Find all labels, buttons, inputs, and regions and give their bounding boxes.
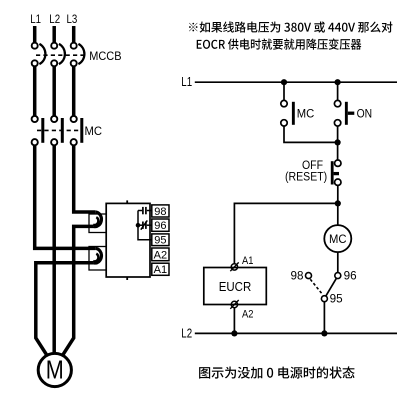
wire L3 incoming drop	[72, 26, 76, 43]
EOCR CT window notch 1	[89, 214, 106, 233]
svg-text:L2: L2	[49, 12, 60, 26]
EOCR output contact 98 terminal	[306, 273, 312, 279]
svg-text:ON: ON	[357, 107, 373, 121]
svg-text:L3: L3	[67, 12, 78, 26]
svg-text:98: 98	[154, 206, 166, 218]
EOCR box bottom tick	[126, 277, 128, 280]
EOCR relay body box	[106, 203, 150, 277]
note text line 1	[189, 21, 392, 32]
node junction dot below ON	[335, 139, 341, 145]
EOCR terminal box A2	[152, 248, 169, 261]
wire L1 CT loop hook	[94, 248, 102, 263]
svg-text:95: 95	[330, 292, 343, 306]
MC auxiliary contact	[281, 100, 287, 106]
wire A2 to L2 rail	[233, 308, 235, 334]
wire MC aux to OFF junction	[284, 126, 338, 142]
svg-text:M: M	[46, 354, 64, 384]
MC pole 3 contact bar	[80, 118, 83, 143]
svg-text:A2: A2	[154, 249, 167, 261]
svg-text:MC: MC	[85, 124, 103, 138]
wire L3 CT loop hook	[94, 212, 102, 227]
EOCR internal NC contact to 96	[138, 224, 142, 226]
wire L2 incoming drop	[52, 26, 56, 43]
wire L2 rail	[195, 332, 397, 334]
wire L1 CT loop return	[36, 263, 94, 356]
caption text bottom	[199, 366, 355, 378]
wire L3 CT loop return	[62, 226, 94, 356]
EOCR output contact 96 terminal	[335, 273, 341, 279]
MC pole 1 contact bar	[41, 118, 44, 143]
motor M1 circle	[38, 353, 71, 386]
svg-text:MC: MC	[297, 107, 315, 121]
node junction dot 95/L2	[321, 330, 327, 336]
svg-text:(RESET): (RESET)	[285, 172, 327, 184]
svg-text:A2: A2	[242, 309, 253, 321]
dashed actuation 98-95	[310, 279, 322, 294]
wire L2 MCCB to MC	[52, 67, 56, 116]
EUCR relay box	[204, 268, 266, 305]
wire L2 MC to motor	[52, 146, 56, 354]
MC pole 2 terminal circles	[51, 116, 57, 122]
EOCR terminal box A1	[152, 263, 169, 275]
wire junction to EUCR A1	[234, 203, 337, 263]
moving contact 95-96	[326, 278, 337, 296]
EOCR CT window notch 2	[89, 247, 106, 271]
MC pole 3 terminal circles	[71, 116, 77, 122]
EOCR internal NO contact to 98	[138, 210, 142, 212]
svg-text:MC: MC	[329, 232, 347, 246]
wire MC aux branch drop	[283, 82, 285, 100]
wire L1 MC to EOCR loop	[35, 146, 96, 249]
wire L1 MCCB to MC	[33, 67, 37, 116]
svg-text:A1: A1	[242, 255, 253, 267]
node junction dot L1/MC branch	[281, 79, 287, 85]
svg-text:96: 96	[344, 269, 357, 283]
wire ON branch drop	[337, 82, 339, 100]
wire ON to OFF junction	[337, 126, 339, 160]
EOCR terminal box 95	[152, 234, 169, 246]
MC pole 2 contact bar	[61, 118, 64, 143]
MC linkage dashed line	[37, 129, 82, 131]
EOCR terminal box 96	[152, 219, 169, 231]
wire OFF to coil junction	[337, 185, 339, 224]
svg-text:98: 98	[291, 269, 304, 283]
svg-text:A1: A1	[154, 264, 167, 276]
MCCB pole 2 breaker arc	[59, 44, 65, 64]
svg-text:96: 96	[154, 220, 166, 232]
MCCB linkage dashed line	[36, 54, 87, 56]
MC pole 1 terminal circles	[32, 116, 38, 122]
pushbutton OFF/RESET (NC)	[335, 160, 341, 166]
wire L1 rail	[195, 81, 397, 83]
node junction dot coil/EUCR	[335, 200, 341, 206]
svg-text:L1: L1	[181, 74, 192, 89]
svg-text:L2: L2	[181, 325, 192, 340]
MCCB pole 2 terminal circles	[51, 43, 57, 49]
MCCB pole 3 terminal circles	[71, 43, 77, 49]
MCCB pole 3 breaker arc	[78, 44, 84, 64]
EOCR output contact 95 common terminal	[321, 296, 327, 302]
EUCR terminal A2 screw	[231, 301, 237, 307]
node junction dot EUCR/L2	[231, 330, 237, 336]
MCCB pole 1 terminal circles	[32, 43, 38, 49]
svg-text:L1: L1	[30, 12, 41, 26]
svg-text:EUCR: EUCR	[219, 280, 252, 294]
EOCR box top tick	[126, 200, 128, 203]
svg-text:95: 95	[154, 235, 166, 247]
node junction dot L1/ON branch	[335, 79, 341, 85]
wire L1 incoming drop	[33, 26, 37, 43]
wire L3 MC to EOCR loop	[74, 146, 96, 213]
EUCR terminal A1 screw	[231, 264, 237, 270]
note text line 2	[197, 38, 362, 49]
MCCB pole 1 breaker arc	[39, 44, 45, 64]
svg-text:OFF: OFF	[302, 158, 323, 172]
wire L3 MCCB to MC	[72, 67, 76, 116]
wire coil to 96	[337, 253, 339, 273]
svg-text:MCCB: MCCB	[89, 49, 121, 63]
wire 95 to L2 rail	[323, 302, 325, 334]
EOCR internal junction dot	[136, 223, 141, 228]
MC coil	[324, 225, 351, 252]
EOCR terminal box 98	[152, 205, 169, 217]
pushbutton ON (NO)	[334, 100, 340, 106]
EOCR internal common lead (95)	[138, 211, 152, 240]
